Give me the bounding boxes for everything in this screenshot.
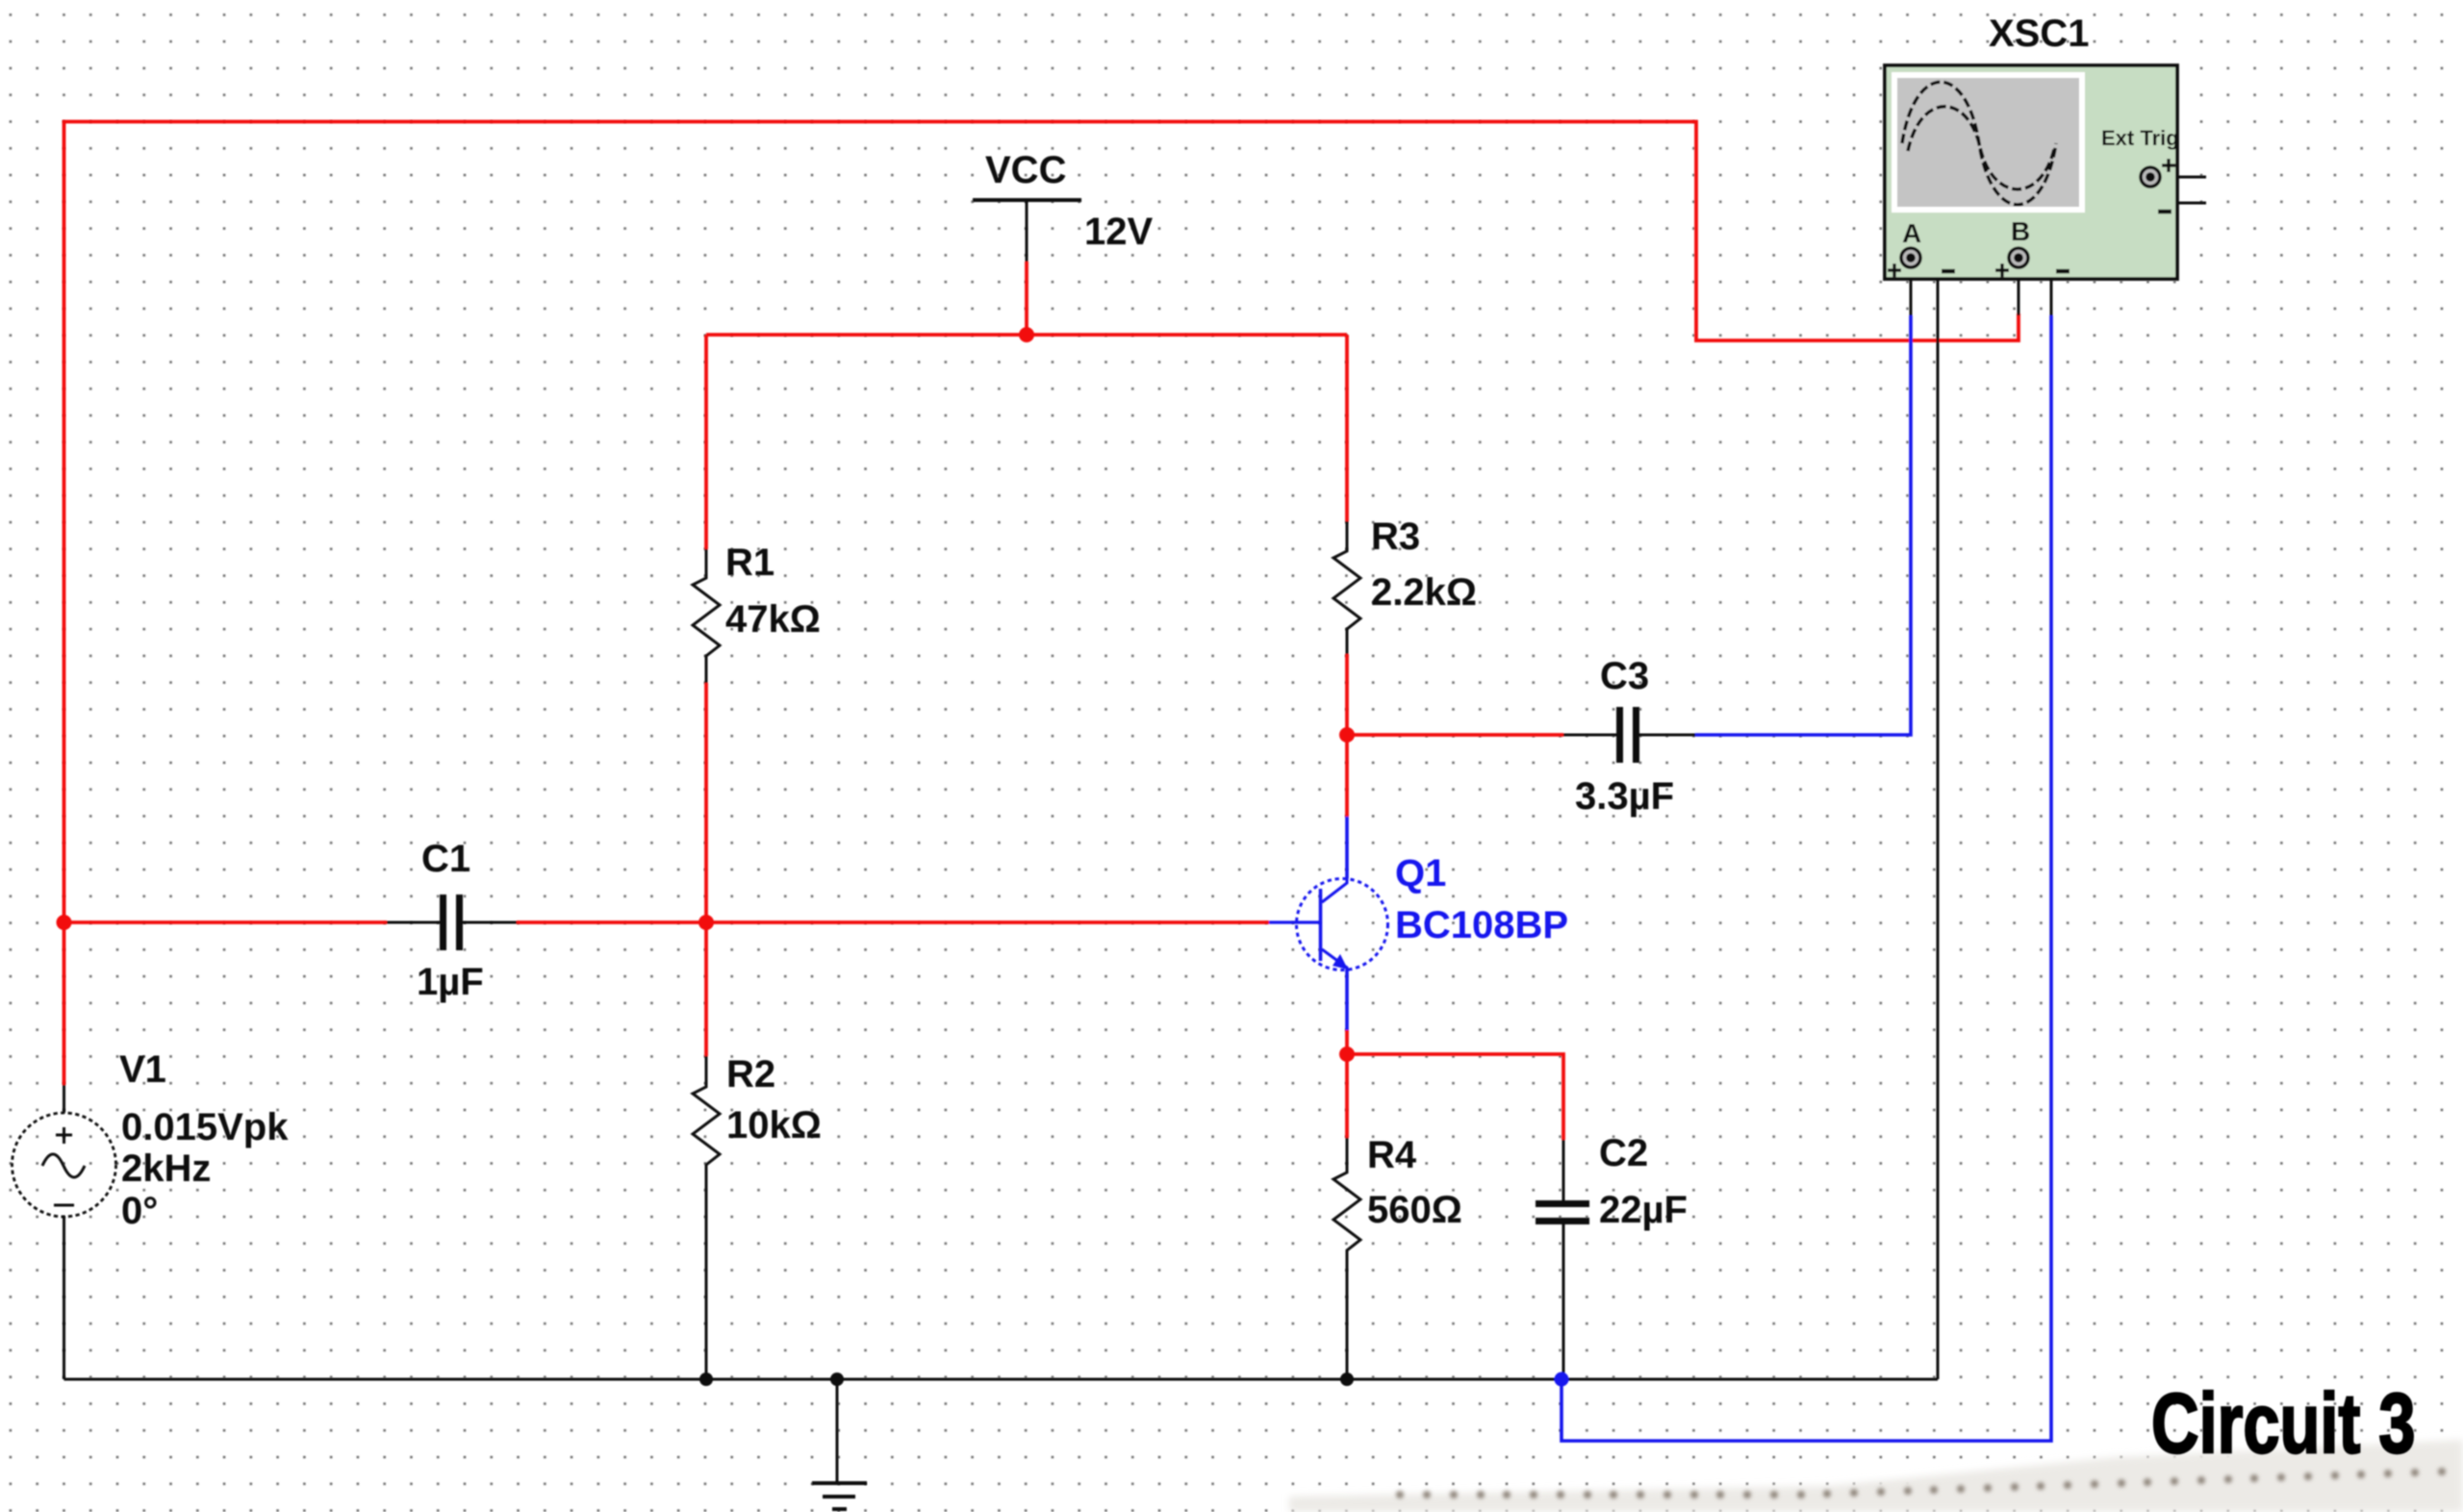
svg-text:Ext Trig: Ext Trig (2101, 126, 2179, 150)
svg-text:1µF: 1µF (417, 961, 484, 1003)
svg-text:VCC: VCC (985, 149, 1066, 191)
svg-text:C3: C3 (1600, 655, 1649, 697)
svg-text:XSC1: XSC1 (1989, 13, 2090, 55)
svg-text:Q1: Q1 (1395, 852, 1446, 895)
svg-text:B: B (2011, 216, 2030, 246)
svg-text:BC108BP: BC108BP (1395, 904, 1568, 946)
svg-text:Circuit 3: Circuit 3 (2151, 1376, 2416, 1471)
svg-text:R2: R2 (726, 1053, 775, 1096)
svg-text:C1: C1 (421, 838, 470, 880)
svg-text:12V: 12V (1084, 211, 1153, 253)
svg-text:C2: C2 (1599, 1132, 1648, 1174)
svg-text:47kΩ: 47kΩ (725, 598, 821, 641)
svg-text:0°: 0° (121, 1190, 158, 1232)
svg-text:22µF: 22µF (1599, 1189, 1688, 1231)
svg-text:560Ω: 560Ω (1367, 1189, 1462, 1231)
svg-text:A: A (1902, 218, 1921, 248)
svg-text:R3: R3 (1371, 516, 1420, 558)
svg-text:2.2kΩ: 2.2kΩ (1371, 571, 1477, 614)
svg-text:2kHz: 2kHz (121, 1147, 211, 1190)
svg-text:R1: R1 (725, 542, 774, 584)
svg-text:3.3µF: 3.3µF (1575, 775, 1674, 818)
svg-text:0.015Vpk: 0.015Vpk (121, 1106, 289, 1148)
svg-text:10kΩ: 10kΩ (726, 1104, 822, 1147)
svg-text:V1: V1 (119, 1048, 166, 1091)
svg-text:R4: R4 (1367, 1134, 1417, 1176)
